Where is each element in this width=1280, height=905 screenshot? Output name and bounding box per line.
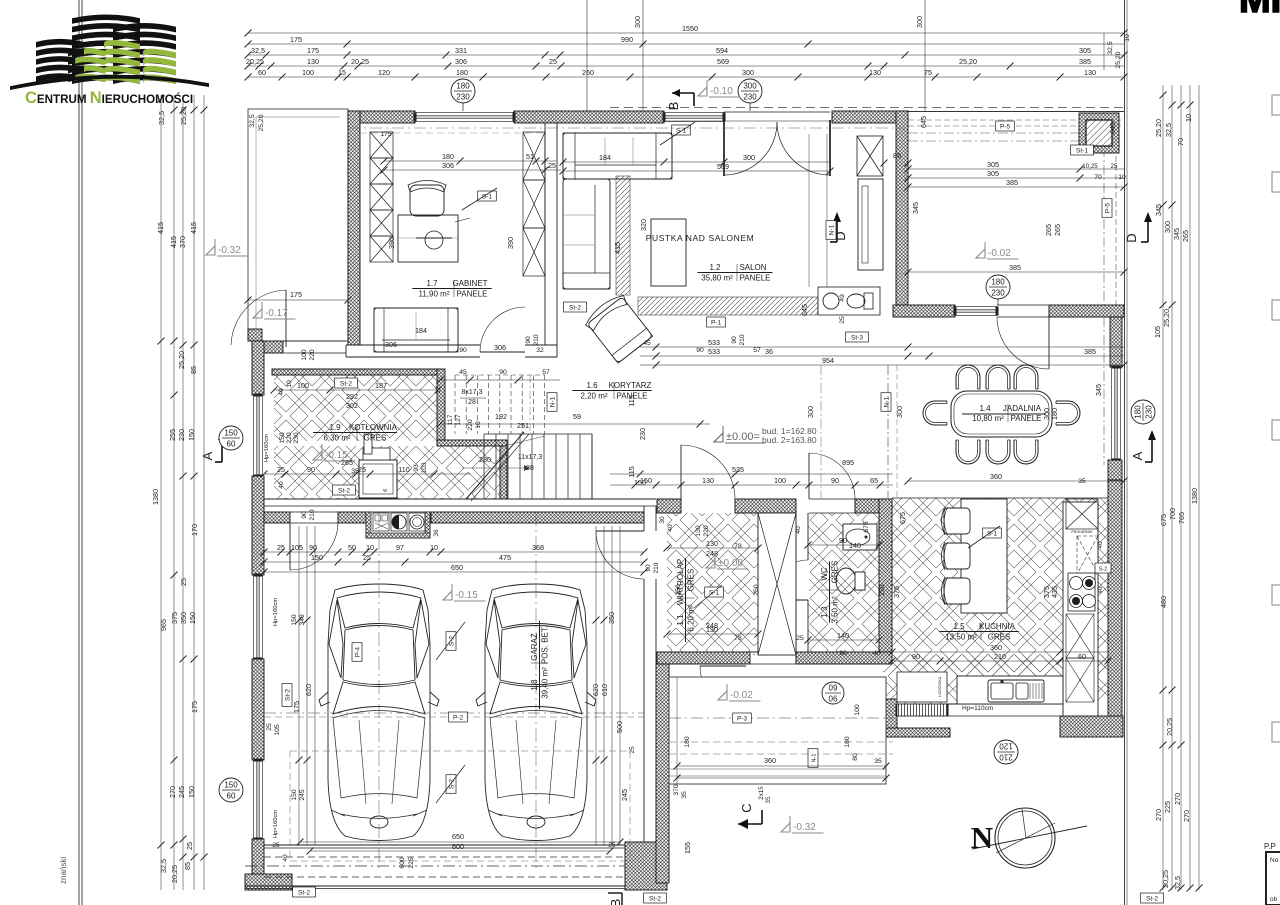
svg-text:35: 35 bbox=[681, 791, 688, 799]
svg-text:415: 415 bbox=[189, 222, 198, 234]
svg-text:180: 180 bbox=[1050, 408, 1059, 420]
svg-text:GRES: GRES bbox=[364, 434, 387, 443]
svg-text:180: 180 bbox=[684, 736, 691, 748]
svg-text:35: 35 bbox=[874, 758, 882, 765]
svg-text:305: 305 bbox=[987, 160, 999, 169]
svg-text:10: 10 bbox=[475, 421, 482, 429]
svg-text:533: 533 bbox=[708, 338, 720, 347]
svg-text:KUCHNIA: KUCHNIA bbox=[979, 622, 1016, 631]
svg-text:20,25: 20,25 bbox=[1165, 718, 1174, 736]
svg-text:09: 09 bbox=[829, 684, 838, 693]
svg-text:25: 25 bbox=[185, 842, 194, 850]
svg-text:90: 90 bbox=[831, 476, 839, 485]
svg-text:115: 115 bbox=[627, 395, 636, 406]
svg-text:280: 280 bbox=[479, 455, 491, 464]
svg-text:MI: MI bbox=[1239, 0, 1280, 21]
svg-text:415: 415 bbox=[169, 236, 178, 248]
svg-text:25,20: 25,20 bbox=[1154, 119, 1163, 137]
svg-text:120: 120 bbox=[378, 68, 390, 77]
svg-text:305: 305 bbox=[1079, 46, 1091, 55]
svg-text:WIATROŁAP: WIATROŁAP bbox=[676, 559, 685, 606]
svg-text:250: 250 bbox=[879, 584, 886, 596]
svg-text:340: 340 bbox=[299, 614, 306, 626]
svg-text:±0.00: ±0.00 bbox=[718, 558, 743, 569]
svg-text:150: 150 bbox=[224, 429, 238, 438]
svg-text:370: 370 bbox=[673, 784, 680, 796]
svg-text:10,25: 10,25 bbox=[1082, 163, 1098, 170]
svg-text:-0.10: -0.10 bbox=[710, 86, 733, 97]
svg-text:170: 170 bbox=[190, 524, 199, 536]
svg-text:-0.15: -0.15 bbox=[455, 590, 478, 601]
svg-text:10: 10 bbox=[1184, 114, 1193, 122]
svg-text:1.7: 1.7 bbox=[426, 279, 438, 288]
svg-text:40: 40 bbox=[1097, 541, 1104, 549]
svg-text:300: 300 bbox=[743, 153, 755, 162]
svg-text:90: 90 bbox=[301, 511, 308, 519]
svg-text:105: 105 bbox=[1153, 326, 1162, 338]
svg-text:225: 225 bbox=[408, 857, 415, 869]
svg-text:90: 90 bbox=[912, 652, 920, 661]
svg-text:P-2: P-2 bbox=[453, 714, 464, 721]
svg-text:265: 265 bbox=[1044, 224, 1053, 236]
svg-text:345: 345 bbox=[1094, 384, 1103, 396]
svg-text:57: 57 bbox=[542, 369, 550, 376]
svg-text:306: 306 bbox=[455, 57, 467, 66]
svg-text:569: 569 bbox=[717, 57, 729, 66]
svg-text:600: 600 bbox=[399, 857, 406, 869]
svg-text:1550: 1550 bbox=[682, 24, 698, 33]
svg-text:10: 10 bbox=[430, 543, 438, 552]
svg-text:2,20 m²: 2,20 m² bbox=[580, 392, 607, 401]
svg-text:300: 300 bbox=[1163, 221, 1172, 233]
svg-text:895: 895 bbox=[842, 458, 854, 467]
svg-text:180: 180 bbox=[442, 152, 454, 161]
svg-text:PANELE: PANELE bbox=[1011, 414, 1042, 423]
svg-text:40: 40 bbox=[873, 650, 881, 657]
svg-text:A: A bbox=[200, 451, 215, 460]
svg-text:175: 175 bbox=[190, 701, 199, 713]
svg-text:St-2: St-2 bbox=[1146, 895, 1158, 902]
svg-text:B: B bbox=[608, 899, 623, 905]
svg-text:415: 415 bbox=[613, 242, 622, 254]
svg-text:S-2: S-2 bbox=[1099, 566, 1108, 572]
svg-text:292: 292 bbox=[346, 392, 358, 401]
svg-text:1.8: 1.8 bbox=[530, 679, 539, 691]
svg-text:954: 954 bbox=[822, 356, 834, 365]
svg-text:220: 220 bbox=[703, 525, 710, 537]
svg-text:480: 480 bbox=[1159, 596, 1168, 608]
svg-text:1380: 1380 bbox=[151, 489, 160, 505]
svg-text:S-2: S-2 bbox=[448, 779, 455, 790]
svg-text:GRES: GRES bbox=[687, 569, 696, 592]
svg-text:97: 97 bbox=[396, 543, 404, 552]
svg-text:1380: 1380 bbox=[1190, 488, 1199, 504]
svg-text:620: 620 bbox=[591, 684, 600, 696]
svg-text:285: 285 bbox=[341, 458, 353, 467]
svg-text:245: 245 bbox=[177, 786, 186, 798]
svg-text:230: 230 bbox=[1145, 405, 1154, 419]
svg-text:P-5: P-5 bbox=[1000, 123, 1011, 130]
svg-text:-0.32: -0.32 bbox=[218, 245, 241, 256]
svg-text:85: 85 bbox=[183, 862, 192, 870]
svg-text:331: 331 bbox=[455, 46, 467, 55]
svg-text:70: 70 bbox=[1094, 174, 1102, 181]
svg-text:385: 385 bbox=[1009, 263, 1021, 272]
svg-text:KORYTARZ: KORYTARZ bbox=[609, 381, 652, 390]
svg-text:JADALNIA: JADALNIA bbox=[1003, 404, 1042, 413]
svg-text:32,5: 32,5 bbox=[249, 114, 256, 127]
svg-text:50: 50 bbox=[348, 543, 356, 552]
svg-text:P.P: P.P bbox=[1264, 842, 1276, 851]
svg-text:Hp=160cm: Hp=160cm bbox=[273, 598, 279, 626]
svg-text:Hp=110cm: Hp=110cm bbox=[962, 705, 993, 712]
svg-text:25: 25 bbox=[272, 842, 280, 849]
svg-text:25,20: 25,20 bbox=[177, 351, 186, 369]
svg-text:210: 210 bbox=[994, 652, 1006, 661]
svg-text:St-2: St-2 bbox=[284, 689, 291, 701]
svg-text:150: 150 bbox=[291, 614, 298, 626]
svg-text:150: 150 bbox=[640, 476, 652, 485]
svg-text:No: No bbox=[1270, 857, 1279, 864]
svg-text:35: 35 bbox=[765, 796, 772, 803]
svg-text:350: 350 bbox=[607, 612, 616, 624]
svg-text:10: 10 bbox=[366, 543, 374, 552]
svg-text:220: 220 bbox=[286, 432, 293, 444]
svg-text:30: 30 bbox=[659, 516, 666, 524]
svg-text:49: 49 bbox=[839, 294, 846, 302]
svg-text:90: 90 bbox=[731, 336, 738, 344]
svg-text:w: w bbox=[383, 488, 387, 494]
svg-text:180: 180 bbox=[456, 82, 470, 91]
svg-text:180: 180 bbox=[456, 68, 468, 77]
svg-text:25: 25 bbox=[549, 57, 557, 66]
svg-text:260: 260 bbox=[582, 68, 594, 77]
svg-text:85: 85 bbox=[893, 151, 901, 160]
svg-text:230: 230 bbox=[638, 428, 647, 440]
svg-text:220: 220 bbox=[467, 419, 474, 431]
svg-text:140: 140 bbox=[849, 541, 861, 550]
svg-text:90: 90 bbox=[839, 650, 847, 657]
svg-text:345: 345 bbox=[911, 202, 920, 214]
svg-text:175: 175 bbox=[292, 701, 301, 713]
svg-text:535: 535 bbox=[732, 465, 744, 474]
svg-text:WC: WC bbox=[820, 567, 829, 581]
svg-text:255: 255 bbox=[168, 429, 177, 441]
svg-text:250: 250 bbox=[675, 584, 682, 596]
svg-text:15: 15 bbox=[338, 68, 346, 77]
svg-text:175: 175 bbox=[290, 290, 302, 299]
svg-text:100: 100 bbox=[774, 476, 786, 485]
svg-text:368: 368 bbox=[532, 543, 544, 552]
svg-text:300: 300 bbox=[633, 16, 642, 28]
svg-text:180: 180 bbox=[991, 278, 1005, 287]
svg-text:220: 220 bbox=[309, 349, 316, 361]
svg-text:A: A bbox=[1130, 451, 1145, 460]
svg-text:39,40 m²: 39,40 m² bbox=[541, 667, 550, 699]
svg-text:230: 230 bbox=[293, 432, 300, 444]
svg-text:230: 230 bbox=[456, 93, 470, 102]
svg-text:117: 117 bbox=[447, 414, 454, 425]
svg-text:150: 150 bbox=[279, 432, 286, 444]
svg-text:45: 45 bbox=[459, 369, 467, 376]
svg-text:25: 25 bbox=[277, 543, 285, 552]
svg-text:P-1: P-1 bbox=[711, 319, 722, 326]
svg-text:140: 140 bbox=[837, 631, 849, 640]
svg-text:1.5: 1.5 bbox=[953, 622, 965, 631]
svg-text:360: 360 bbox=[990, 472, 1002, 481]
svg-text:32,5: 32,5 bbox=[251, 46, 265, 55]
svg-text:-0.02: -0.02 bbox=[988, 248, 1011, 259]
svg-text:P-5: P-5 bbox=[1104, 203, 1111, 214]
svg-text:270: 270 bbox=[168, 786, 177, 798]
svg-text:2x15: 2x15 bbox=[758, 786, 765, 800]
svg-text:32,5: 32,5 bbox=[1164, 123, 1173, 137]
svg-text:60: 60 bbox=[258, 68, 266, 77]
svg-text:385: 385 bbox=[1079, 57, 1091, 66]
svg-text:100: 100 bbox=[302, 68, 314, 77]
svg-text:1.4: 1.4 bbox=[979, 404, 991, 413]
svg-text:645: 645 bbox=[1108, 122, 1117, 134]
svg-text:12: 12 bbox=[435, 386, 442, 394]
svg-text:45: 45 bbox=[643, 340, 651, 347]
svg-text:184: 184 bbox=[415, 326, 427, 335]
svg-text:35,80 m²: 35,80 m² bbox=[701, 274, 733, 283]
svg-text:130: 130 bbox=[706, 539, 718, 548]
svg-text:210: 210 bbox=[653, 562, 660, 573]
svg-text:130: 130 bbox=[1084, 68, 1096, 77]
svg-text:GRES: GRES bbox=[988, 633, 1011, 642]
svg-text:300: 300 bbox=[806, 406, 815, 418]
svg-text:475: 475 bbox=[499, 553, 511, 562]
svg-text:600: 600 bbox=[452, 842, 464, 851]
svg-text:385: 385 bbox=[1006, 178, 1018, 187]
svg-text:569: 569 bbox=[717, 162, 729, 171]
svg-text:8x17,3: 8x17,3 bbox=[461, 389, 482, 396]
svg-text:25: 25 bbox=[277, 465, 285, 474]
svg-text:25: 25 bbox=[1111, 163, 1118, 170]
svg-text:90: 90 bbox=[309, 543, 317, 552]
svg-text:11,90 m²: 11,90 m² bbox=[419, 290, 450, 299]
svg-text:N-1: N-1 bbox=[549, 396, 556, 407]
svg-text:PANELE: PANELE bbox=[457, 290, 488, 299]
svg-text:184: 184 bbox=[599, 153, 611, 162]
svg-text:85: 85 bbox=[189, 366, 198, 374]
svg-text:Hp=160cm: Hp=160cm bbox=[264, 434, 270, 462]
svg-text:90: 90 bbox=[525, 336, 532, 344]
svg-text:251: 251 bbox=[517, 421, 529, 430]
svg-text:230: 230 bbox=[991, 289, 1005, 298]
svg-text:375: 375 bbox=[170, 612, 179, 624]
svg-text:-0.32: -0.32 bbox=[793, 822, 816, 833]
svg-text:10: 10 bbox=[1124, 34, 1131, 42]
svg-text:127: 127 bbox=[455, 414, 462, 426]
svg-text:28: 28 bbox=[468, 399, 476, 406]
svg-text:650: 650 bbox=[452, 832, 464, 841]
svg-text:130: 130 bbox=[695, 525, 702, 537]
svg-text:1.6: 1.6 bbox=[586, 381, 598, 390]
svg-text:36: 36 bbox=[765, 347, 773, 356]
svg-text:SALON: SALON bbox=[739, 263, 766, 272]
svg-text:175: 175 bbox=[290, 35, 302, 44]
svg-text:St-1: St-1 bbox=[1076, 147, 1088, 154]
svg-text:S-2: S-2 bbox=[448, 636, 455, 647]
svg-text:700: 700 bbox=[1168, 508, 1177, 520]
svg-text:360: 360 bbox=[764, 756, 776, 765]
svg-text:620: 620 bbox=[304, 684, 313, 696]
svg-text:105: 105 bbox=[291, 543, 303, 552]
svg-text:10: 10 bbox=[1118, 174, 1126, 181]
svg-text:-0.02: -0.02 bbox=[730, 690, 753, 701]
svg-text:6,30 m²: 6,30 m² bbox=[323, 434, 350, 443]
svg-text:435: 435 bbox=[1050, 586, 1059, 598]
svg-text:100: 100 bbox=[854, 704, 861, 716]
svg-text:390: 390 bbox=[387, 237, 396, 249]
svg-text:187: 187 bbox=[375, 381, 387, 390]
svg-text:65: 65 bbox=[870, 476, 878, 485]
svg-text:POS. BET.: POS. BET. bbox=[541, 626, 550, 664]
svg-text:N: N bbox=[971, 820, 993, 855]
svg-text:20,25: 20,25 bbox=[351, 57, 369, 66]
svg-text:25: 25 bbox=[796, 635, 804, 642]
svg-text:LODÓWKA: LODÓWKA bbox=[937, 676, 942, 697]
svg-text:270: 270 bbox=[1182, 810, 1191, 822]
svg-text:10,80 m²: 10,80 m² bbox=[972, 414, 1004, 423]
svg-text:100: 100 bbox=[297, 381, 309, 390]
svg-text:25: 25 bbox=[358, 465, 366, 474]
svg-text:150: 150 bbox=[187, 429, 196, 441]
svg-text:93: 93 bbox=[413, 464, 420, 472]
svg-text:375: 375 bbox=[892, 586, 901, 598]
svg-text:-0.17: -0.17 bbox=[265, 308, 288, 319]
svg-text:150: 150 bbox=[188, 612, 197, 624]
svg-text:N-1: N-1 bbox=[828, 224, 835, 235]
svg-text:350: 350 bbox=[179, 612, 188, 624]
svg-text:245: 245 bbox=[620, 789, 629, 801]
svg-text:300: 300 bbox=[743, 82, 757, 91]
svg-text:6,20 m²: 6,20 m² bbox=[687, 604, 696, 631]
svg-text:305: 305 bbox=[987, 169, 999, 178]
svg-text:1.9: 1.9 bbox=[329, 423, 341, 432]
svg-text:300: 300 bbox=[742, 68, 754, 77]
svg-text:1.1: 1.1 bbox=[676, 614, 685, 626]
svg-text:St-2: St-2 bbox=[569, 304, 581, 311]
svg-text:3,50 m²: 3,50 m² bbox=[831, 596, 840, 623]
svg-text:C: C bbox=[739, 803, 754, 812]
svg-text:250: 250 bbox=[753, 584, 760, 596]
svg-text:130: 130 bbox=[702, 476, 714, 485]
svg-text:965: 965 bbox=[159, 619, 168, 631]
svg-text:175: 175 bbox=[307, 46, 319, 55]
svg-text:St-2: St-2 bbox=[340, 380, 352, 387]
svg-text:P-3: P-3 bbox=[737, 715, 748, 722]
svg-text:230: 230 bbox=[177, 429, 186, 441]
svg-text:60: 60 bbox=[227, 792, 236, 801]
svg-text:10: 10 bbox=[286, 380, 293, 388]
svg-text:300: 300 bbox=[915, 16, 924, 28]
svg-text:150: 150 bbox=[187, 786, 196, 798]
svg-text:32,5: 32,5 bbox=[159, 859, 168, 873]
svg-text:40: 40 bbox=[1097, 586, 1104, 594]
svg-text:znański: znański bbox=[59, 857, 68, 884]
svg-text:GARAŻ: GARAŻ bbox=[530, 633, 539, 661]
svg-text:130: 130 bbox=[869, 68, 881, 77]
svg-text:90: 90 bbox=[499, 369, 507, 376]
svg-text:32,5: 32,5 bbox=[157, 111, 166, 125]
svg-text:PIEKARNIK: PIEKARNIK bbox=[1071, 529, 1093, 534]
svg-text:320: 320 bbox=[639, 219, 648, 231]
svg-text:370: 370 bbox=[178, 236, 187, 248]
svg-text:385: 385 bbox=[1084, 347, 1096, 356]
svg-text:90: 90 bbox=[839, 536, 847, 545]
svg-text:St-2: St-2 bbox=[338, 487, 350, 494]
svg-text:415: 415 bbox=[156, 222, 165, 234]
svg-text:345: 345 bbox=[1172, 228, 1181, 240]
svg-text:100: 100 bbox=[301, 349, 308, 361]
svg-text:25,20: 25,20 bbox=[959, 57, 977, 66]
svg-text:265: 265 bbox=[1181, 230, 1190, 242]
svg-text:32: 32 bbox=[536, 347, 544, 354]
svg-text:990: 990 bbox=[621, 35, 633, 44]
svg-text:90: 90 bbox=[459, 347, 467, 354]
svg-text:57: 57 bbox=[753, 347, 761, 354]
svg-text:St-2: St-2 bbox=[649, 895, 661, 902]
svg-text:25: 25 bbox=[629, 746, 636, 754]
svg-text:36: 36 bbox=[433, 529, 440, 537]
svg-text:180: 180 bbox=[1134, 405, 1143, 419]
svg-text:302: 302 bbox=[346, 401, 358, 410]
svg-text:51: 51 bbox=[526, 152, 534, 161]
svg-text:245: 245 bbox=[299, 789, 306, 801]
svg-text:210: 210 bbox=[309, 509, 316, 521]
svg-text:175: 175 bbox=[380, 131, 392, 138]
svg-text:192: 192 bbox=[495, 412, 507, 421]
svg-text:25,20: 25,20 bbox=[258, 114, 265, 131]
svg-text:20,25: 20,25 bbox=[170, 865, 179, 883]
svg-text:35: 35 bbox=[1078, 478, 1086, 485]
svg-text:155: 155 bbox=[683, 842, 692, 854]
svg-text:110: 110 bbox=[398, 465, 409, 474]
svg-text:500: 500 bbox=[615, 721, 624, 733]
svg-text:210: 210 bbox=[533, 334, 540, 346]
svg-text:270: 270 bbox=[1173, 793, 1182, 805]
svg-text:270: 270 bbox=[1154, 809, 1163, 821]
svg-text:25: 25 bbox=[548, 161, 556, 170]
svg-text:230: 230 bbox=[743, 93, 757, 102]
svg-text:675: 675 bbox=[863, 521, 870, 533]
svg-text:150: 150 bbox=[311, 553, 323, 562]
svg-text:35: 35 bbox=[351, 468, 359, 475]
svg-text:210: 210 bbox=[739, 334, 746, 346]
svg-text:N-1: N-1 bbox=[811, 754, 817, 763]
svg-text:28: 28 bbox=[526, 465, 534, 472]
svg-text:533: 533 bbox=[708, 347, 720, 356]
svg-text:25,20: 25,20 bbox=[1162, 309, 1171, 327]
svg-text:105: 105 bbox=[274, 724, 281, 736]
svg-text:D: D bbox=[1124, 233, 1139, 242]
svg-text:32,5: 32,5 bbox=[1107, 41, 1114, 54]
svg-text:765: 765 bbox=[1177, 512, 1186, 524]
svg-text:GABINET: GABINET bbox=[452, 279, 487, 288]
svg-text:610: 610 bbox=[600, 684, 609, 696]
svg-text:60: 60 bbox=[1078, 652, 1086, 661]
svg-text:11x17,3: 11x17,3 bbox=[518, 454, 542, 461]
svg-text:GRES: GRES bbox=[831, 561, 840, 584]
svg-text:150: 150 bbox=[291, 789, 298, 801]
svg-text:PUSTKA NAD SALONEM: PUSTKA NAD SALONEM bbox=[646, 233, 755, 243]
svg-text:bud. 2=163.80: bud. 2=163.80 bbox=[762, 435, 817, 445]
svg-text:P-4: P-4 bbox=[354, 647, 361, 658]
svg-text:115: 115 bbox=[627, 466, 636, 477]
